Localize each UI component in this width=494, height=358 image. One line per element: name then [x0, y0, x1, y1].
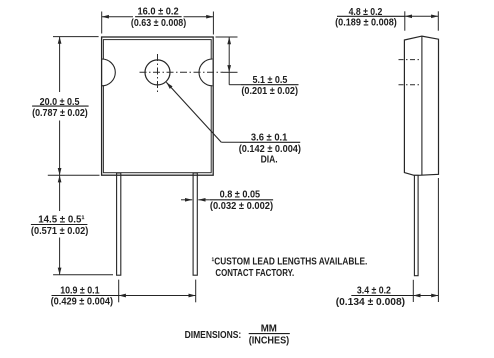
horizontal centerline through hole [140, 71, 224, 73]
svg-text:¹CUSTOM LEAD LENGTHS AVAILABLE: ¹CUSTOM LEAD LENGTHS AVAILABLE. [212, 255, 368, 267]
svg-text:(0.134 ± 0.008): (0.134 ± 0.008) [336, 297, 405, 308]
svg-text:(0.201 ± 0.02): (0.201 ± 0.02) [241, 86, 298, 97]
svg-text:(0.63 ± 0.008): (0.63 ± 0.008) [131, 18, 186, 29]
front view lead 1 (left) [117, 173, 121, 275]
dim 3.4: left extension line below side lead [412, 280, 414, 302]
dim 5.1: horizontal leader to text [229, 84, 241, 86]
svg-text:0.8 ± 0.05: 0.8 ± 0.05 [220, 190, 261, 201]
dim 16.0: fraction bar [135, 16, 182, 18]
dim 3.6: fraction bar [240, 141, 300, 143]
dim 16.0: left arrow segment [102, 16, 133, 18]
svg-text:(0.429 ± 0.004): (0.429 ± 0.004) [51, 297, 114, 308]
svg-text:(0.787 ± 0.02): (0.787 ± 0.02) [32, 108, 88, 119]
dim 10.9: left extension line below left lead [118, 280, 120, 303]
dim 3.6 dia: leader arrow to hole edge [166, 82, 221, 142]
dim 5.1: top extension tick from body corner [216, 36, 238, 38]
dim 5.1: bottom extension tick at hole centerline [223, 71, 238, 73]
svg-text:(0.142 ± 0.004): (0.142 ± 0.004) [239, 144, 301, 155]
svg-text:(0.032 ± 0.002): (0.032 ± 0.002) [210, 201, 273, 212]
svg-text:DIMENSIONS:: DIMENSIONS: [185, 330, 242, 341]
svg-text:MM: MM [261, 323, 277, 334]
vertical centerline through hole [157, 54, 159, 92]
dim 10.9: right extension line below right lead [195, 280, 197, 303]
dim 5.1: fraction bar [241, 84, 299, 86]
svg-text:14.5 ± 0.5¹: 14.5 ± 0.5¹ [38, 213, 85, 225]
dim 4.8: fraction bar / leader to extension line [337, 15, 405, 17]
dim 14.5: bottom extension tick at lead tips [53, 274, 113, 276]
dim 4.8: right extension line [437, 11, 439, 30]
svg-text:(0.189 ± 0.008): (0.189 ± 0.008) [335, 18, 397, 29]
front view body inner outline [103, 40, 211, 173]
side view body outline [404, 36, 438, 175]
side view internal edge line (tab/mold parting) [421, 36, 423, 175]
dim 14.5: fraction bar [31, 224, 88, 226]
dim 10.9: fraction bar / leader to extension line [52, 295, 119, 297]
dim 20.0: fraction bar [32, 105, 89, 107]
svg-text:CONTACT FACTORY.: CONTACT FACTORY. [215, 268, 294, 279]
dim 14.5: dimension line lower segment with down arrow [59, 238, 61, 275]
side view hole top hidden line (dash-dot) [399, 59, 422, 61]
dim 0.8: fraction bar [210, 199, 273, 201]
dim 16.0: right arrow segment [184, 16, 214, 18]
dim 4.8: left extension line [404, 11, 406, 30]
svg-text:DIA.: DIA. [261, 155, 278, 166]
dim 3.4: fraction bar / leader to extension line [351, 295, 413, 297]
dim 20.0: top extension tick [53, 36, 99, 38]
svg-text:16.0 ± 0.2: 16.0 ± 0.2 [138, 7, 179, 18]
svg-text:(INCHES): (INCHES) [249, 336, 290, 347]
dim 20.0: bottom extension tick [48, 174, 100, 176]
dim 0.8: left arrow pointing right at lead [181, 199, 192, 201]
dim 3.4: dimension line with outward arrows [413, 295, 438, 297]
dim 16.0: right extension line [212, 12, 214, 35]
dim 5.1: dimension line with up and down arrows, leader below [228, 37, 230, 85]
left side notch (half-circle) [102, 59, 115, 86]
side view lead [414, 175, 418, 275]
mounting hole [145, 60, 170, 85]
dim 10.9: dimension line with outward arrows [119, 295, 196, 297]
right side notch (half-circle) [199, 59, 212, 86]
svg-text:(0.571 ± 0.02): (0.571 ± 0.02) [31, 226, 88, 237]
dim 20.0: dimension line lower segment with down arrow [59, 121, 61, 176]
dim 0.8: right arrow pointing left at lead [198, 199, 210, 201]
dim 4.8: dimension line with outward arrows [405, 15, 439, 17]
front view body outer outline [102, 37, 214, 175]
side view hole bottom hidden line (dash-dot) [399, 84, 422, 86]
dim 3.4: right extension line from tab face [437, 178, 439, 302]
dim 20.0: dimension line upper segment with up arrow [59, 37, 61, 92]
caption: fraction bar [249, 333, 290, 335]
dim 14.5: dimension line upper segment with up arrow [59, 175, 61, 211]
front view lead 2 (right) [193, 173, 197, 275]
dim 3.6 dia: horizontal leader to text [221, 141, 240, 143]
dim 16.0: left extension line [101, 12, 103, 34]
